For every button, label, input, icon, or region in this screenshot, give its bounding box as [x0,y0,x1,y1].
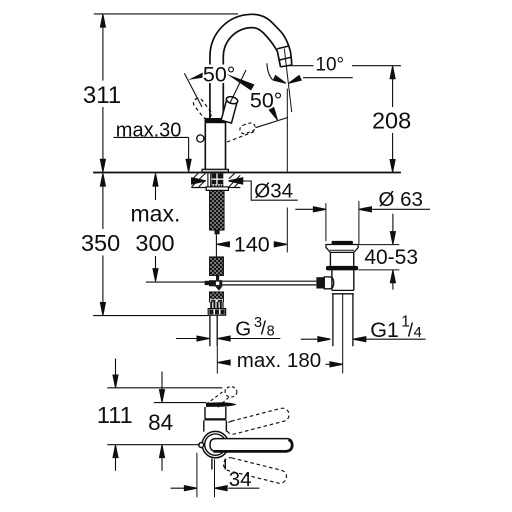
svg-text:34: 34 [229,468,252,491]
side view spout outlet circle [199,443,204,448]
svg-text:G1: G1 [370,318,399,342]
spout axis extension to deck [286,89,288,253]
dimension 111 [115,359,117,471]
waste neck [330,252,353,266]
counter hatch left [192,173,206,187]
dimension 140 [217,242,230,247]
escutcheon base plate [202,169,228,172]
spout swivel line [256,117,289,127]
G 1 1/4 dimension [301,338,426,340]
50 degree arc arrow right [227,74,255,91]
spout swivel lower dashed line [227,131,255,142]
pull-rod knob circle [197,135,204,142]
waste rod knob [316,277,324,288]
spout axis line [284,49,291,113]
hose coupling block [210,257,224,275]
flange inner line [330,249,354,251]
svg-text:311: 311 [83,82,121,109]
svg-text:140: 140 [234,233,270,257]
spout arc inner edge [223,28,280,120]
diameter 34 leader [240,181,298,200]
10 degree arrowheads [273,76,286,86]
side view lever thick bottom and right edge [214,440,293,452]
waste seal ring (black) [326,266,358,271]
side view dashed handle upper [225,407,291,436]
side view body upper [205,407,226,419]
spout swivel dashed capsule [239,122,256,135]
40-53 arrows [392,214,394,290]
coupling neck [216,275,219,280]
svg-text:4: 4 [414,324,422,341]
max. 180 dimension [218,360,231,365]
84 reference line [154,402,206,404]
max.300 extension to rod [146,281,205,283]
40-53 extension lines [358,245,399,270]
pull rod lower [216,346,218,373]
dimension max.300 line [155,174,157,280]
svg-text:84: 84 [148,410,173,435]
aerator band 1 [277,46,289,49]
svg-text:8: 8 [267,324,275,340]
waste body [332,270,354,290]
side view cap black beak [206,402,237,407]
label 50 degrees handle [202,65,239,84]
side view dashed raised handle ellipse [225,387,237,397]
side view dashed handle lower [222,456,288,484]
svg-text:Ø34: Ø34 [254,180,293,203]
counter underside line left [191,187,207,189]
side view lever solid [210,439,293,452]
rod link knob [205,281,209,285]
counter deck line [93,172,401,174]
pop-up waste flange [326,245,358,253]
svg-text:350: 350 [81,230,120,256]
top reference line [94,13,238,15]
dimension 350 line [102,174,104,315]
50 degree spout leader arrow [273,111,278,120]
50 degree fan line left [184,73,202,107]
waste center seam [342,294,344,374]
faucet body top black band [205,119,225,123]
svg-text:Ø 63: Ø 63 [379,188,423,211]
10 degree leader line [303,77,353,79]
side view swivel collar inner [205,434,226,455]
svg-text:max. 180: max. 180 [237,349,321,372]
horizontal pull rod to waste [222,281,316,285]
svg-text:10°: 10° [315,55,344,76]
svg-text:208: 208 [372,108,411,134]
counter hatch right [229,173,240,187]
350 bottom reference line [93,315,208,317]
dimension 311 line [102,15,104,172]
counter underside line right [223,187,240,189]
side view dashed raised handle lines [206,390,229,408]
faucet body [205,119,225,170]
dimension 208 line [392,67,394,172]
side view swivel collar outer [202,431,228,457]
connection tube G3/8 [210,315,217,346]
dimension 84 [161,372,163,471]
lower coupling block [210,292,224,302]
50 degree arc arrow left [188,73,203,80]
svg-text:max.30: max.30 [116,119,182,141]
111 reference line [107,387,222,389]
side view body waist band [204,418,226,420]
spout arc outer edge [210,14,292,119]
diameter 63 dimension line [295,208,430,210]
waste tailpipe [333,294,353,347]
lower nut [208,309,225,316]
side view body lower [204,421,227,432]
shank slot edges [208,173,211,187]
aerator band 2 [279,57,291,60]
common reference line [107,444,200,446]
svg-text:40-53: 40-53 [364,246,418,269]
lower thread stripes [210,302,223,309]
clamp wedge right [229,178,243,184]
rod link block [209,280,222,286]
side view body below collar [212,459,225,470]
svg-text:max.: max. [131,200,181,226]
lever handle (solid) [221,96,239,124]
lower coupling white band [210,299,223,302]
dashed handle (left swivel position) [192,96,214,120]
waste body joint lines [332,290,354,293]
spout outlet face [281,65,292,67]
svg-text:50°: 50° [250,88,283,112]
waste rod clevis [324,277,333,289]
svg-text:300: 300 [135,230,174,256]
svg-text:50°: 50° [203,63,236,87]
rod joint cone [215,286,222,290]
threaded shank knurled [210,190,224,230]
diameter 63 extension lines [326,201,359,244]
dimension 34 arrows [171,487,260,489]
shank section blocks [212,174,224,185]
rod link white square [216,282,219,285]
pop-up waste top plug (black) [332,241,353,244]
shank tip [215,230,220,234]
50 degree fan line right [230,70,246,103]
svg-text:G: G [235,318,251,341]
pull rod upper [215,234,217,257]
10 degree angle arc [267,63,273,80]
G 3/8 dimension [176,338,280,340]
mounting nut [206,187,228,191]
shank thread stripes [211,185,224,188]
dimension 34 extension lines [197,453,215,497]
208 top reference line [289,65,401,67]
clamp wedge left [192,178,206,184]
svg-text:111: 111 [97,402,133,428]
